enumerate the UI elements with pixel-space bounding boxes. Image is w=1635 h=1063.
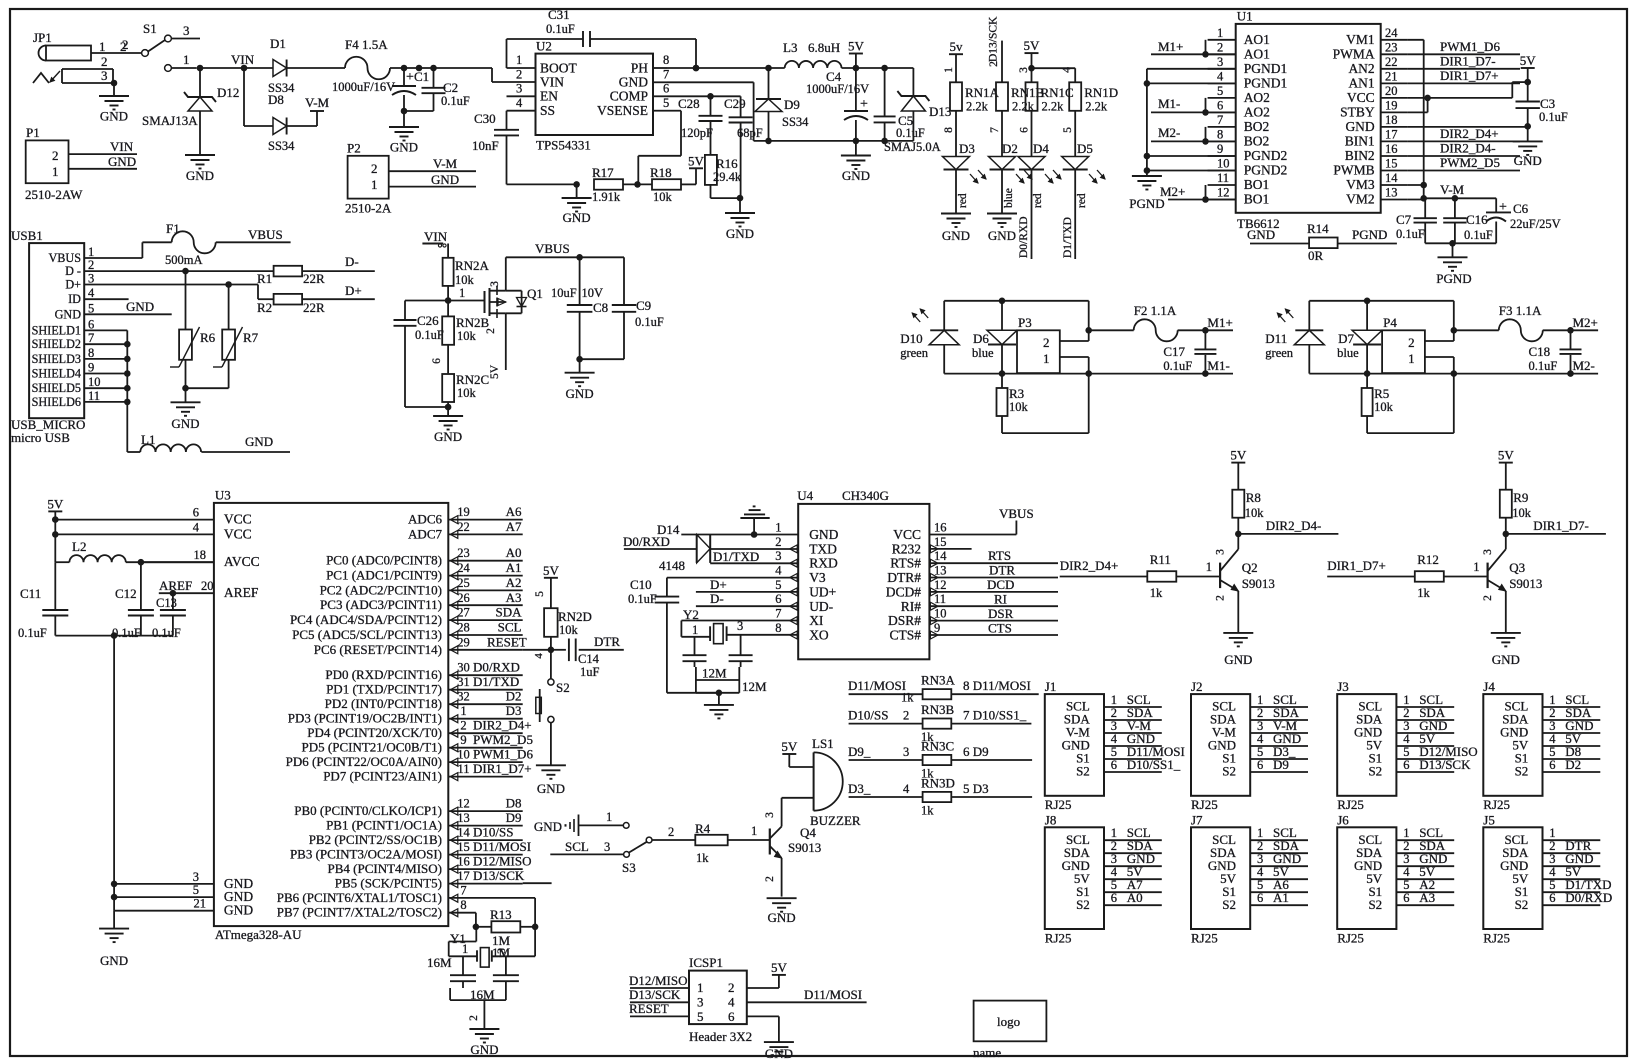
- resistor network RN1C: [1019, 82, 1074, 156]
- svg-text:1: 1: [183, 52, 190, 67]
- svg-text:blue: blue: [1003, 188, 1015, 208]
- wire COMP: [667, 93, 741, 100]
- svg-text:GND: GND: [186, 168, 214, 183]
- wire: [390, 65, 536, 82]
- svg-text:C29: C29: [724, 96, 746, 111]
- svg-text:D4: D4: [1033, 141, 1049, 156]
- svg-text:AO2: AO2: [1244, 104, 1270, 119]
- net DIR2_D4+: [1060, 558, 1148, 577]
- svg-text:C1: C1: [414, 69, 429, 84]
- svg-text:VCC: VCC: [893, 527, 921, 542]
- ground: [941, 214, 971, 244]
- svg-text:PWM2_D5: PWM2_D5: [473, 732, 533, 747]
- svg-text:PWM1_D6: PWM1_D6: [1440, 39, 1500, 54]
- svg-text:DIR1_D7-: DIR1_D7-: [1440, 54, 1496, 69]
- svg-text:CTS#: CTS#: [889, 628, 921, 643]
- wire GND rail: [667, 82, 913, 144]
- svg-text:D11: D11: [1265, 331, 1287, 346]
- net M1-: [1151, 96, 1236, 116]
- svg-text:12: 12: [934, 578, 947, 592]
- svg-text:6: 6: [431, 358, 443, 364]
- svg-text:6: 6: [88, 317, 94, 331]
- svg-text:CTS: CTS: [988, 621, 1012, 636]
- svg-text:ID: ID: [68, 292, 81, 306]
- svg-text:24: 24: [457, 561, 470, 575]
- svg-text:GND: GND: [619, 75, 648, 90]
- wire: [1018, 67, 1075, 82]
- svg-text:6: 6: [1549, 758, 1555, 772]
- svg-text:11: 11: [88, 389, 100, 403]
- svg-text:PC2 (ADC2/PCINT10): PC2 (ADC2/PCINT10): [320, 582, 442, 597]
- svg-text:9: 9: [460, 733, 466, 747]
- svg-text:green: green: [1265, 346, 1294, 360]
- svg-text:GND: GND: [55, 307, 82, 321]
- net M1+: [1178, 315, 1233, 334]
- svg-text:PB3 (PCINT3/OC2A/MOSI): PB3 (PCINT3/OC2A/MOSI): [290, 847, 442, 862]
- resistor R3: [997, 374, 1089, 434]
- resistor network RN2C: [442, 372, 489, 407]
- jack switch prong: [33, 69, 114, 83]
- svg-text:8: 8: [460, 898, 466, 912]
- svg-text:AO1: AO1: [1244, 32, 1270, 47]
- wire: [91, 52, 142, 54]
- ground PGND: [1436, 257, 1471, 286]
- pin number: [903, 745, 909, 759]
- svg-text:3: 3: [1111, 719, 1117, 733]
- svg-text:GND: GND: [768, 910, 796, 925]
- svg-text:logo: logo: [997, 1014, 1020, 1029]
- svg-text:R17: R17: [592, 165, 614, 180]
- svg-text:0.1uF: 0.1uF: [628, 592, 657, 606]
- svg-text:29.4k: 29.4k: [713, 170, 742, 184]
- svg-text:0.1uF: 0.1uF: [1529, 359, 1558, 373]
- svg-text:2: 2: [371, 161, 378, 176]
- svg-text:4: 4: [193, 520, 200, 534]
- svg-text:3: 3: [496, 948, 508, 954]
- resistor R2: [257, 294, 325, 315]
- inductor L1: [127, 402, 201, 452]
- svg-text:3: 3: [1403, 719, 1409, 733]
- svg-text:1: 1: [516, 53, 522, 67]
- svg-text:AVCC: AVCC: [224, 554, 260, 569]
- svg-text:C11: C11: [20, 586, 41, 601]
- svg-text:RN2A: RN2A: [455, 258, 490, 273]
- net DIR2_D4-: [1235, 518, 1338, 537]
- svg-text:1: 1: [1549, 826, 1555, 840]
- svg-text:GND: GND: [171, 416, 199, 431]
- svg-text:2: 2: [1549, 706, 1555, 720]
- svg-text:5V: 5V: [1024, 38, 1041, 53]
- svg-text:D2: D2: [506, 689, 522, 704]
- svg-text:5V: 5V: [848, 39, 865, 54]
- svg-text:22: 22: [457, 520, 470, 534]
- svg-text:A0: A0: [506, 545, 522, 560]
- svg-text:BOOT: BOOT: [540, 61, 578, 76]
- svg-text:VBUS: VBUS: [48, 251, 81, 265]
- svg-text:VIN: VIN: [110, 139, 134, 154]
- svg-text:DSR#: DSR#: [888, 613, 921, 628]
- svg-text:5: 5: [1549, 878, 1555, 892]
- svg-text:A1: A1: [1273, 890, 1289, 905]
- LED D11 green: [1265, 301, 1324, 374]
- svg-text:RTS#: RTS#: [890, 556, 921, 571]
- svg-text:DTR#: DTR#: [887, 570, 921, 585]
- svg-text:RN3B: RN3B: [921, 702, 955, 717]
- LED D3: [943, 141, 987, 214]
- svg-text:1: 1: [52, 164, 59, 179]
- net D13/SCK: [629, 987, 689, 1002]
- svg-text:0R: 0R: [1308, 248, 1324, 263]
- svg-text:V-M: V-M: [433, 156, 458, 171]
- svg-text:SMAJ5.0A: SMAJ5.0A: [884, 140, 941, 154]
- diode D1: [268, 36, 295, 95]
- resistor R14: [1247, 221, 1397, 263]
- svg-text:DIR2_D4+: DIR2_D4+: [1440, 126, 1499, 141]
- svg-text:30: 30: [457, 661, 470, 675]
- wire D13/SCK net: [523, 882, 552, 884]
- svg-text:PC6 (RESET/PCINT14): PC6 (RESET/PCINT14): [314, 642, 442, 657]
- net DIR1_D7+: [1327, 558, 1415, 577]
- svg-text:10k: 10k: [457, 329, 477, 343]
- net RTS: [929, 548, 1058, 563]
- svg-text:S9013: S9013: [788, 840, 821, 855]
- svg-text:6: 6: [775, 592, 781, 606]
- svg-text:P4: P4: [1383, 315, 1397, 330]
- svg-text:R7: R7: [243, 330, 259, 345]
- connector J7 RJ25: [1191, 812, 1308, 945]
- svg-text:2: 2: [516, 68, 522, 82]
- net GND: [201, 434, 290, 452]
- svg-text:D0/RXD: D0/RXD: [1565, 890, 1612, 905]
- net D3_: [848, 781, 871, 796]
- svg-text:2510-2A: 2510-2A: [345, 201, 392, 216]
- svg-text:D1/TXD: D1/TXD: [713, 549, 759, 564]
- svg-text:BIN1: BIN1: [1345, 133, 1375, 148]
- svg-text:C31: C31: [548, 7, 570, 22]
- net D+: [696, 577, 798, 592]
- capacitor C31: [507, 7, 700, 71]
- svg-text:1: 1: [88, 245, 94, 259]
- svg-text:AN2: AN2: [1348, 61, 1374, 76]
- svg-text:1: 1: [1206, 560, 1212, 574]
- svg-text:5: 5: [1217, 84, 1223, 98]
- svg-text:VCC: VCC: [1347, 90, 1375, 105]
- svg-text:P1: P1: [26, 125, 40, 140]
- svg-text:4: 4: [1549, 865, 1556, 879]
- net GND pin5: [84, 299, 172, 314]
- svg-text:C6: C6: [1513, 201, 1529, 216]
- svg-text:D+: D+: [65, 278, 81, 292]
- svg-text:BO2: BO2: [1244, 133, 1270, 148]
- resistor network RN2B: [431, 301, 490, 374]
- net VBUS U4: [929, 506, 1033, 535]
- svg-text:16M: 16M: [470, 987, 495, 1002]
- svg-text:14: 14: [457, 826, 470, 840]
- svg-text:RJ25: RJ25: [1045, 797, 1072, 812]
- svg-text:1: 1: [1111, 826, 1117, 840]
- IC U2 TPS54331: [536, 39, 654, 153]
- svg-text:R4: R4: [695, 821, 711, 836]
- buzzer LS1: [782, 736, 861, 828]
- svg-text:SS34: SS34: [782, 115, 809, 129]
- svg-text:M1-: M1-: [1207, 358, 1229, 373]
- net VIN flag: [422, 229, 448, 258]
- svg-text:14: 14: [934, 549, 947, 563]
- svg-text:18: 18: [194, 548, 207, 562]
- svg-text:22R: 22R: [303, 271, 325, 286]
- svg-text:GND: GND: [390, 140, 418, 155]
- connector USB1: [11, 228, 101, 445]
- svg-text:M2-: M2-: [1573, 358, 1595, 373]
- svg-text:D-: D-: [710, 591, 724, 606]
- svg-text:6: 6: [193, 506, 199, 520]
- svg-text:U2: U2: [536, 39, 552, 54]
- svg-text:V3: V3: [809, 570, 826, 585]
- svg-text:+: +: [860, 97, 868, 112]
- svg-text:5V: 5V: [543, 563, 560, 578]
- svg-text:UD-: UD-: [809, 599, 833, 614]
- svg-text:5: 5: [663, 96, 669, 110]
- net DIR1_D7-: [1503, 518, 1606, 537]
- svg-text:31: 31: [457, 675, 470, 689]
- svg-text:blue: blue: [1337, 346, 1359, 360]
- svg-text:CH340G: CH340G: [842, 488, 889, 503]
- svg-text:GND: GND: [988, 228, 1016, 243]
- svg-text:2: 2: [122, 37, 129, 52]
- svg-text:7: 7: [1217, 113, 1223, 127]
- net PWM2_D5: [1408, 155, 1520, 171]
- capacitor C29: [724, 96, 763, 201]
- svg-text:17: 17: [457, 869, 470, 883]
- svg-text:R16: R16: [716, 156, 738, 171]
- svg-text:M2-: M2-: [1158, 125, 1180, 140]
- svg-text:micro USB: micro USB: [11, 430, 70, 445]
- connector ICSP1 Header 3X2: [689, 955, 752, 1044]
- IC U3 ATmega328-AU: [214, 488, 448, 943]
- svg-text:5: 5: [1549, 745, 1555, 759]
- capacitor C14: [551, 639, 624, 680]
- svg-text:13: 13: [457, 811, 470, 825]
- svg-text:0.1uF: 0.1uF: [635, 315, 664, 329]
- svg-text:15: 15: [457, 840, 470, 854]
- svg-text:0.1uF: 0.1uF: [546, 22, 575, 36]
- svg-text:C12: C12: [115, 586, 137, 601]
- svg-text:R9: R9: [1513, 490, 1528, 505]
- svg-text:D2: D2: [1002, 141, 1018, 156]
- resistor network RN2A: [443, 258, 490, 301]
- svg-text:RESET: RESET: [629, 1001, 669, 1016]
- svg-text:10nF: 10nF: [472, 138, 499, 153]
- svg-text:D13/SCK: D13/SCK: [473, 868, 525, 883]
- pin number: [903, 709, 909, 723]
- svg-text:12M: 12M: [742, 679, 767, 694]
- svg-text:GND: GND: [100, 109, 128, 124]
- svg-text:1k: 1k: [921, 804, 934, 818]
- svg-text:F2 1.1A: F2 1.1A: [1134, 303, 1177, 318]
- pin number: [903, 782, 910, 796]
- svg-text:ATmega328-AU: ATmega328-AU: [215, 927, 302, 942]
- svg-text:R6: R6: [200, 330, 216, 345]
- net D+: [302, 283, 375, 299]
- svg-text:R232: R232: [892, 541, 921, 556]
- svg-text:2: 2: [1403, 706, 1409, 720]
- svg-text:6: 6: [663, 82, 669, 96]
- svg-text:PGND: PGND: [1129, 196, 1164, 211]
- svg-text:PGND2: PGND2: [1244, 163, 1288, 178]
- svg-text:5: 5: [1111, 878, 1117, 892]
- svg-text:13: 13: [1385, 186, 1398, 200]
- svg-text:PD1 (TXD/PCINT17): PD1 (TXD/PCINT17): [326, 682, 442, 697]
- fuse F4: [287, 37, 390, 79]
- svg-text:PGND: PGND: [1436, 271, 1471, 286]
- svg-text:1: 1: [1408, 351, 1415, 366]
- svg-text:VIN: VIN: [424, 229, 448, 244]
- svg-text:12: 12: [1217, 186, 1230, 200]
- svg-text:C9: C9: [636, 298, 651, 313]
- svg-text:J4: J4: [1483, 679, 1495, 694]
- svg-text:16: 16: [934, 521, 947, 535]
- wire: [403, 111, 405, 127]
- svg-text:PC3 (ADC3/PCINT11): PC3 (ADC3/PCINT11): [320, 597, 442, 612]
- LED D10 green: [900, 301, 959, 374]
- svg-text:RN2C: RN2C: [456, 372, 489, 387]
- svg-text:Q2: Q2: [1242, 560, 1258, 575]
- capacitor C18: [1529, 330, 1582, 373]
- svg-text:blue: blue: [972, 346, 994, 360]
- svg-text:A6: A6: [506, 504, 522, 519]
- svg-text:C30: C30: [474, 111, 496, 126]
- diode D9: [755, 68, 809, 141]
- ground: [565, 356, 595, 401]
- svg-text:C8: C8: [593, 300, 608, 315]
- resistor network RN3B: [849, 702, 1032, 744]
- svg-text:M1+: M1+: [1158, 39, 1183, 54]
- svg-text:RN3D: RN3D: [921, 776, 955, 791]
- wire V-M rail: [1408, 40, 1496, 202]
- svg-text:3: 3: [489, 281, 501, 287]
- svg-text:1: 1: [692, 623, 698, 637]
- svg-text:red: red: [1076, 193, 1088, 208]
- fuse F2: [1089, 303, 1178, 341]
- svg-text:2: 2: [1043, 335, 1050, 350]
- svg-text:D11/MOSI: D11/MOSI: [473, 839, 531, 854]
- net DSR: [929, 606, 1058, 621]
- svg-text:21: 21: [1385, 69, 1398, 83]
- svg-text:PD7 (PCINT23/AIN1): PD7 (PCINT23/AIN1): [323, 769, 442, 784]
- svg-text:13: 13: [934, 564, 947, 578]
- wire VCC STBY: [1408, 79, 1531, 113]
- svg-text:2: 2: [903, 709, 909, 723]
- svg-text:RJ25: RJ25: [1337, 797, 1364, 812]
- ground: [1513, 126, 1543, 168]
- svg-text:GND: GND: [765, 1046, 793, 1061]
- svg-text:12: 12: [457, 797, 470, 811]
- svg-text:0.1uF: 0.1uF: [152, 626, 181, 640]
- svg-text:6: 6: [1257, 758, 1263, 772]
- inductor L2: [55, 539, 214, 566]
- connector J3 RJ25: [1337, 679, 1478, 812]
- svg-text:4: 4: [1257, 732, 1264, 746]
- svg-text:D3: D3: [506, 703, 522, 718]
- svg-text:PC5 (ADC5/SCL/PCINT13): PC5 (ADC5/SCL/PCINT13): [292, 627, 442, 642]
- svg-text:1uF: 1uF: [580, 665, 600, 679]
- resistor R11: [1147, 552, 1220, 600]
- ground: [99, 911, 129, 968]
- svg-text:5: 5: [775, 578, 781, 592]
- connector P1: [25, 125, 137, 202]
- svg-text:5: 5: [697, 1009, 704, 1024]
- svg-text:PD3 (PCINT19/OC2B/INT1): PD3 (PCINT19/OC2B/INT1): [288, 711, 442, 726]
- svg-text:4: 4: [1111, 865, 1118, 879]
- power 5V: [1230, 448, 1247, 490]
- svg-text:32: 32: [457, 690, 470, 704]
- svg-text:8: 8: [775, 621, 781, 635]
- svg-text:GND: GND: [1345, 119, 1374, 134]
- svg-text:GND: GND: [1224, 652, 1252, 667]
- svg-text:AN1: AN1: [1348, 75, 1374, 90]
- capacitor C13: [152, 593, 186, 640]
- svg-text:JP1: JP1: [33, 30, 52, 45]
- crystal Y1: [427, 927, 535, 970]
- ground flag inverted: [740, 506, 769, 534]
- svg-text:VBUS: VBUS: [535, 241, 570, 256]
- svg-text:1: 1: [371, 177, 378, 192]
- svg-text:D7: D7: [1338, 331, 1354, 346]
- svg-text:SCL: SCL: [565, 839, 589, 854]
- svg-text:1: 1: [697, 980, 704, 995]
- svg-text:2: 2: [52, 148, 59, 163]
- svg-text:DIR2_D4-: DIR2_D4-: [1266, 518, 1322, 533]
- net D-: [696, 591, 798, 606]
- svg-text:11: 11: [457, 762, 469, 776]
- svg-text:16: 16: [457, 855, 470, 869]
- ground: [841, 141, 871, 183]
- svg-text:16M: 16M: [427, 955, 452, 970]
- svg-text:DIR1_D7-: DIR1_D7-: [1533, 518, 1589, 533]
- net D11/MOSI ICSP: [747, 987, 867, 1002]
- svg-text:9: 9: [88, 361, 94, 375]
- svg-text:ICSP1: ICSP1: [689, 955, 723, 970]
- svg-text:DIR2_D4+: DIR2_D4+: [473, 718, 532, 733]
- power 5V: [1520, 53, 1537, 82]
- net D1/TXD: [710, 549, 798, 564]
- ground: [1491, 633, 1521, 667]
- net VBUS: [216, 227, 291, 242]
- svg-text:VM1: VM1: [1346, 32, 1375, 47]
- svg-text:D6: D6: [973, 331, 989, 346]
- svg-text:2.2k: 2.2k: [966, 100, 989, 114]
- svg-text:DIR1_D7+: DIR1_D7+: [1440, 68, 1499, 83]
- svg-text:1: 1: [459, 286, 465, 300]
- svg-text:7: 7: [989, 127, 1001, 133]
- connector J8 RJ25: [1045, 812, 1162, 945]
- crystal value box 12M: [696, 666, 767, 697]
- capacitor C28: [678, 96, 723, 155]
- capacitor C17: [1163, 330, 1216, 373]
- svg-text:U1: U1: [1237, 9, 1253, 24]
- svg-text:RTS: RTS: [988, 548, 1011, 563]
- svg-text:1: 1: [1257, 826, 1263, 840]
- power 5V: [534, 563, 559, 608]
- svg-text:R14: R14: [1307, 221, 1329, 236]
- TVS diode D13: [897, 68, 951, 141]
- svg-text:GND: GND: [434, 429, 462, 444]
- svg-text:SHIELD2: SHIELD2: [32, 337, 81, 351]
- svg-text:J5: J5: [1483, 812, 1495, 827]
- capacitor C5: [874, 68, 941, 154]
- svg-text:10k: 10k: [653, 190, 673, 204]
- net D11/MOSI out: [963, 678, 1031, 693]
